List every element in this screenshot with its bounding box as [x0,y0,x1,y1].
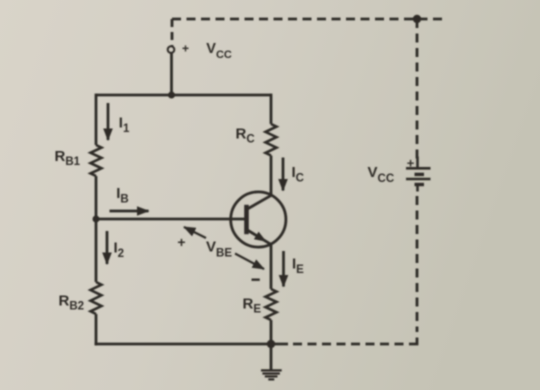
node junction top rail [168,92,175,99]
battery VCC [406,157,431,192]
label battery plus [407,156,415,171]
node base junction [93,216,100,223]
label IB [116,185,128,206]
svg-text:+: + [182,42,189,56]
wire ground stub [270,344,273,370]
wire dashed bottom return [292,343,404,346]
transistor Q1 collector stroke [247,195,272,209]
wire collector lead [270,156,273,196]
wire left branch upper [95,94,98,145]
label VBE plus [177,234,185,250]
wire Vcc lead [170,53,173,96]
svg-text:+: + [177,234,185,250]
svg-text:+: + [407,156,415,171]
label + Vcc top [182,41,232,61]
label VBE [206,238,232,259]
label VBE minus [252,279,260,281]
arrow VBE to base [184,227,206,238]
label IC [292,164,304,185]
node Vcc terminal circle [168,46,175,53]
arrow VBE to emitter [235,254,264,270]
wire left branch middle [95,176,98,282]
wire left branch lower [95,314,98,345]
wire corner dashed return [409,338,417,345]
transistor Q1 emitter stroke [247,230,271,245]
wire emitter to rail [270,320,273,344]
arrow IE [282,251,285,287]
wire dashed top rail [172,18,447,21]
transistor Q1 base bar [244,205,249,234]
label RE [243,295,262,315]
transistor Q1 circle [231,192,286,247]
wire right branch upper [270,94,273,124]
resistor RB2 [91,282,102,314]
label RB2 [59,292,85,312]
wire bottom rail [95,343,288,346]
wire dashed right branch upper [416,19,419,162]
transistor Q1 emitter arrowhead [254,232,267,242]
label VCC battery [368,164,395,185]
arrow I2 [106,231,109,264]
wire base lead [96,218,245,221]
wire dashed right branch lower [416,196,419,332]
label IE [292,256,304,277]
resistor RC [266,124,277,156]
label I1 [119,115,130,136]
ground [261,370,282,379]
arrow IC [282,158,285,191]
label I2 [114,240,125,261]
label RC [236,125,255,145]
arrow I1 [107,103,110,140]
resistor RE [266,289,277,320]
node ground junction [267,340,275,348]
wire emitter lead [270,244,273,289]
arrow IB [110,210,149,213]
wire top rail [96,94,271,97]
resistor RB1 [91,145,102,176]
wire dashed drop to Vcc terminal [171,19,174,46]
label RB1 [55,148,81,168]
node dashed rail junction [413,15,421,23]
